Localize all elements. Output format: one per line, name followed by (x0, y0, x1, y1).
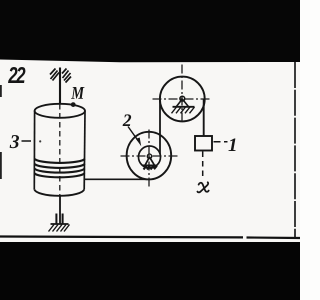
pulley 2 support base (143, 165, 158, 167)
right frame line (294, 62, 296, 237)
label x (197, 182, 208, 192)
pulley 2 vertical centerline (148, 130, 150, 188)
drum axis dashed centerline (59, 104, 61, 196)
top pulley support hatching (172, 107, 195, 113)
block 1 (195, 136, 212, 151)
top pulley vertical centerline (181, 65, 183, 124)
coordinate axis dashed line below block (202, 152, 204, 181)
rope pulley 2 to top pulley (159, 100, 161, 155)
ceiling hatch left bundle (50, 69, 59, 81)
bottom bearing left tick (55, 214, 57, 224)
scan speck near label 3 leader (39, 140, 41, 142)
shaft line from ceiling to drum (59, 68, 61, 105)
pulley 2 axle pin circle (147, 154, 151, 158)
lower shaft below drum (59, 196, 61, 224)
rope winding band 4 (35, 173, 85, 177)
leader line for 3 (22, 140, 32, 142)
top pulley pin support legs (176, 99, 188, 107)
ground line (51, 223, 69, 225)
figure number 22 (8, 67, 25, 83)
left edge mark upper (0, 85, 2, 97)
rope winding band 1 (35, 159, 85, 163)
rope top pulley to block 1 (203, 99, 205, 136)
drum 3 right side (83, 111, 86, 190)
pulley 2 horizontal centerline (121, 155, 179, 157)
label 1 (228, 138, 235, 151)
top black band (0, 0, 300, 62)
rope from drum to pulley 2 (85, 178, 147, 180)
pulley 2 pin support triangle (145, 157, 155, 165)
drum 3 bottom arc (34, 189, 84, 196)
rope winding band 2 (35, 164, 85, 168)
leader line for 1 (214, 141, 228, 143)
label 3 (10, 135, 19, 148)
pulley 2 support hatching (144, 166, 157, 170)
drum 3 top ellipse (35, 104, 85, 118)
top pulley circle (160, 77, 205, 122)
label 2 (123, 114, 132, 126)
top pulley horizontal centerline (153, 98, 212, 100)
ceiling hatch right bundle (62, 69, 71, 83)
point M dot (71, 102, 76, 107)
rope winding band 3 (35, 169, 85, 173)
pulley 2 inner circle (139, 146, 161, 168)
top pulley support base (173, 106, 195, 108)
ground hatching (49, 225, 70, 232)
leader line for 2 with arrowhead (128, 127, 138, 141)
drum 3 left side (33, 111, 35, 190)
bottom frame line (0, 237, 300, 239)
pulley 2 outer circle (127, 132, 172, 180)
bottom black band (0, 242, 300, 300)
top pulley axle pin circle (180, 96, 185, 101)
label M (71, 87, 84, 99)
bottom bearing right tick (62, 214, 64, 224)
left edge mark lower (0, 152, 2, 179)
